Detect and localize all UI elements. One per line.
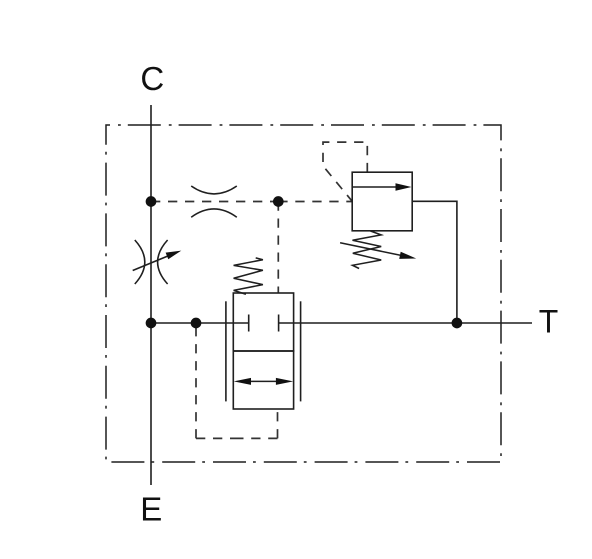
svg-text:E: E [140, 491, 162, 528]
svg-text:C: C [140, 60, 164, 97]
svg-text:T: T [539, 303, 559, 339]
